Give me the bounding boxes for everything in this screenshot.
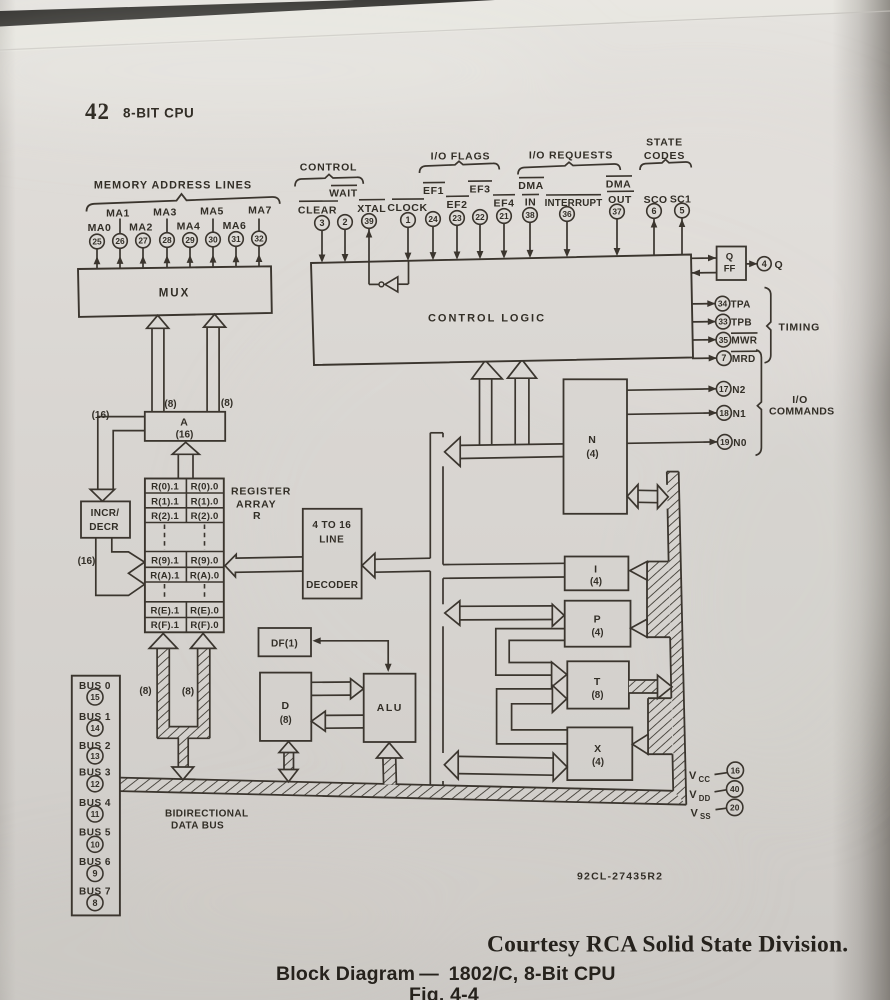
bus arrow A to MUX (8) — [147, 315, 169, 412]
svg-text:TIMING: TIMING — [779, 322, 821, 334]
label I/O REQUESTS — [529, 150, 613, 162]
bus arrow register array to A — [172, 442, 199, 478]
pin 2 WAIT — [329, 185, 358, 262]
pin 37 DMA OUT — [606, 176, 634, 256]
svg-text:33: 33 — [718, 317, 728, 327]
svg-text:A: A — [180, 417, 188, 429]
svg-text:DMA: DMA — [518, 180, 543, 192]
svg-text:(4): (4) — [592, 628, 604, 639]
svg-text:18: 18 — [719, 408, 729, 418]
svg-text:I/O: I/O — [792, 394, 808, 406]
svg-text:EF2: EF2 — [446, 199, 467, 211]
svg-text:Q: Q — [726, 252, 733, 263]
svg-text:N1: N1 — [733, 409, 747, 420]
pin 14 BUS 1 — [79, 712, 111, 736]
svg-text:R(A).1: R(A).1 — [150, 571, 180, 582]
svg-text:I/O FLAGS: I/O FLAGS — [431, 151, 491, 163]
caption fig 4-4 — [409, 984, 479, 1000]
pin 12 BUS 3 — [79, 768, 111, 792]
svg-text:14: 14 — [90, 723, 100, 733]
pin 11 BUS 4 — [79, 798, 111, 822]
svg-text:1: 1 — [405, 215, 410, 225]
svg-text:R(1).0: R(1).0 — [191, 496, 219, 507]
brace control — [295, 174, 363, 186]
black page-top edge band — [0, 0, 495, 27]
svg-text:28: 28 — [162, 235, 172, 245]
svg-text:T: T — [594, 676, 601, 688]
pin 15 BUS 0 — [79, 681, 111, 705]
svg-text:R(E).0: R(E).0 — [190, 605, 219, 616]
bus arrow N to main bus — [445, 437, 461, 466]
label (8) right — [221, 398, 233, 409]
label MA0 — [88, 222, 112, 234]
svg-text:27: 27 — [138, 236, 148, 246]
pin 33 TPB — [692, 314, 752, 329]
svg-text:DMA: DMA — [606, 179, 631, 191]
bracket timing — [765, 288, 771, 363]
svg-text:92CL-27435R2: 92CL-27435R2 — [577, 871, 663, 883]
page header title 8-BIT CPU — [123, 106, 194, 121]
svg-text:23: 23 — [452, 213, 462, 223]
brace memory address lines — [87, 194, 280, 212]
svg-text:35: 35 — [719, 335, 729, 345]
svg-text:29: 29 — [185, 235, 195, 245]
wire MUX to pin 30 — [210, 247, 217, 267]
svg-text:IN: IN — [525, 197, 537, 209]
page header number 42 — [85, 99, 110, 124]
svg-text:DATA BUS: DATA BUS — [171, 821, 224, 832]
label I/O COMMANDS — [769, 394, 834, 418]
svg-text:REGISTER: REGISTER — [231, 486, 291, 498]
bus arrow T to hatched bus — [629, 675, 672, 698]
pin 40 VDD — [689, 781, 743, 803]
svg-text:(16): (16) — [176, 430, 194, 441]
svg-text:(4): (4) — [590, 577, 602, 588]
block 4 TO 16 LINE DECODER — [303, 509, 362, 599]
svg-text:MA2: MA2 — [129, 222, 153, 234]
wire inverter to XTAL pin — [366, 229, 379, 284]
bus arrow A to MUX (8) — [204, 314, 226, 412]
svg-text:Courtesy RCA Solid State Divis: Courtesy RCA Solid State Division. — [487, 932, 848, 958]
svg-text:FF: FF — [724, 264, 736, 275]
svg-text:(8): (8) — [182, 687, 194, 698]
svg-text:V: V — [689, 789, 697, 801]
svg-text:37: 37 — [612, 207, 622, 217]
wire MUX to pin 29 — [187, 248, 194, 268]
svg-text:BIDIRECTIONAL: BIDIRECTIONAL — [165, 809, 249, 820]
pin 35 MWR — [692, 332, 758, 347]
svg-text:DF(1): DF(1) — [271, 639, 298, 650]
svg-text:R(0).0: R(0).0 — [191, 482, 219, 493]
svg-text:(8): (8) — [221, 398, 233, 409]
svg-text:4 TO 16: 4 TO 16 — [312, 520, 351, 531]
svg-text:5: 5 — [679, 206, 684, 216]
bus arrow main bus to decoder — [362, 553, 430, 578]
bus arrow hatched bus to X — [632, 734, 648, 754]
svg-text:V: V — [691, 807, 699, 819]
svg-text:TPB: TPB — [731, 318, 752, 329]
label MA1 — [106, 208, 130, 220]
svg-text:11: 11 — [91, 809, 100, 819]
label MA2 — [129, 222, 153, 234]
svg-text:MA6: MA6 — [223, 220, 247, 232]
svg-text:21: 21 — [499, 211, 509, 221]
svg-text:(16): (16) — [78, 556, 96, 567]
pin 4 Q — [746, 257, 783, 271]
label MA4 — [177, 221, 201, 233]
svg-text:CC: CC — [699, 775, 711, 784]
wire MUX to pin 32 — [256, 246, 263, 266]
svg-text:34: 34 — [718, 299, 728, 309]
pin 19 N0 — [627, 435, 747, 450]
svg-text:LINE: LINE — [319, 535, 344, 546]
wire label stem x213 — [212, 219, 214, 234]
svg-text:COMMANDS: COMMANDS — [769, 406, 834, 418]
pin 39 XTAL — [357, 200, 386, 229]
svg-text:SS: SS — [700, 812, 711, 821]
svg-text:(16): (16) — [92, 410, 110, 421]
bracket io commands — [756, 350, 762, 455]
svg-text:(4): (4) — [592, 757, 604, 768]
pin 34 TPA — [692, 296, 751, 311]
svg-text:10: 10 — [90, 839, 100, 849]
bus arrow to CONTROL LOGIC — [508, 360, 537, 445]
label (16) upper — [92, 410, 110, 421]
caption block diagram — [276, 963, 616, 985]
pin 31 MA6 — [229, 232, 244, 247]
pin 3 CLEAR — [298, 201, 338, 263]
pin 36 INTERRUPT — [545, 195, 603, 258]
svg-text:P: P — [594, 614, 602, 626]
svg-text:8-BIT CPU: 8-BIT CPU — [123, 106, 194, 121]
bus arrow ALU to D — [311, 711, 363, 731]
svg-text:6: 6 — [651, 206, 656, 216]
pin 24 EF1 — [423, 182, 445, 260]
bus arrow hatched bus to I — [630, 562, 647, 581]
svg-text:32: 32 — [254, 234, 264, 244]
svg-text:CONTROL LOGIC: CONTROL LOGIC — [428, 313, 546, 325]
svg-text:2: 2 — [342, 217, 347, 227]
svg-text:EF4: EF4 — [493, 198, 514, 210]
wire N to bus lower — [460, 457, 563, 459]
label MA7 — [248, 205, 272, 217]
svg-text:INCR/: INCR/ — [91, 508, 120, 519]
svg-text:DD: DD — [699, 794, 711, 803]
svg-text:I/O REQUESTS: I/O REQUESTS — [529, 150, 613, 162]
pin 30 MA5 — [206, 232, 221, 247]
svg-text:MA4: MA4 — [177, 221, 201, 233]
bus arrow D to data bus — [279, 742, 298, 782]
wire MUX to pin 26 — [117, 249, 124, 269]
pin 9 BUS 6 — [79, 857, 111, 882]
label I/O FLAGS — [431, 151, 491, 163]
svg-text:17: 17 — [719, 384, 729, 394]
label MEMORY ADDRESS LINES — [94, 180, 252, 192]
svg-text:N2: N2 — [732, 385, 746, 396]
svg-text:DECODER: DECODER — [306, 580, 359, 591]
wire control to Q FF — [691, 255, 717, 262]
label (8) bus left — [139, 686, 151, 697]
svg-text:22: 22 — [475, 212, 485, 222]
wire I to main bus — [443, 563, 565, 578]
pin 27 MA2 — [136, 233, 151, 248]
svg-text:8: 8 — [92, 898, 97, 908]
pin 18 N1 — [627, 406, 746, 421]
bus wire A to INCR/DECR (16) — [90, 417, 145, 502]
svg-text:R(0).1: R(0).1 — [151, 482, 179, 493]
svg-text:MUX: MUX — [159, 288, 191, 300]
svg-text:7: 7 — [721, 353, 726, 363]
svg-text:MA5: MA5 — [200, 206, 224, 218]
svg-text:I: I — [594, 564, 598, 576]
wire ALU to DF — [313, 637, 392, 672]
svg-text:ARRAY: ARRAY — [236, 498, 276, 510]
svg-text:R(F).0: R(F).0 — [190, 620, 218, 631]
svg-text:40: 40 — [730, 784, 740, 794]
wire MUX to pin 27 — [140, 248, 147, 268]
svg-text:R(A).0: R(A).0 — [190, 571, 219, 582]
bus arrow to CONTROL LOGIC — [472, 360, 503, 444]
svg-text:31: 31 — [231, 234, 241, 244]
label CONTROL — [300, 162, 358, 174]
svg-text:ALU: ALU — [377, 702, 403, 714]
pin 6 SC0 — [644, 194, 668, 255]
svg-text:R: R — [253, 510, 261, 522]
pin 5 SC1 — [670, 194, 691, 255]
pin 28 MA3 — [160, 233, 175, 248]
pin 32 MA7 — [252, 231, 267, 246]
faint page stack edge — [0, 11, 890, 50]
svg-text:39: 39 — [364, 216, 374, 226]
wire label stem x259 — [258, 219, 260, 234]
block CONTROL LOGIC — [311, 255, 693, 366]
svg-text:DECR: DECR — [89, 522, 119, 533]
svg-text:R(9).0: R(9).0 — [191, 555, 219, 566]
wire label stem x167 — [166, 219, 168, 234]
svg-text:(8): (8) — [164, 399, 176, 410]
pin 13 BUS 2 — [79, 741, 111, 764]
pin 38 DMA IN — [518, 177, 544, 258]
svg-text:STATE: STATE — [646, 137, 683, 149]
block INCR/DECR — [81, 501, 130, 537]
bus wire X to T — [497, 685, 568, 744]
svg-text:36: 36 — [562, 209, 572, 219]
svg-text:MWR: MWR — [731, 336, 757, 347]
svg-text:R(F).1: R(F).1 — [151, 620, 180, 631]
block DF — [259, 628, 312, 656]
svg-text:16: 16 — [731, 765, 741, 775]
block P register — [565, 601, 631, 647]
svg-text:WAIT: WAIT — [329, 188, 358, 200]
caption courtesy — [487, 932, 848, 958]
svg-text:(8): (8) — [139, 686, 151, 697]
block I register — [565, 557, 629, 591]
brace io requests — [518, 162, 620, 174]
wire label stem x120 — [119, 219, 121, 234]
svg-text:26: 26 — [115, 236, 125, 246]
bus arrow data bus to ALU — [377, 743, 403, 785]
svg-text:(4): (4) — [586, 449, 598, 460]
svg-text:MA0: MA0 — [88, 222, 112, 234]
pin 1 CLOCK — [387, 199, 427, 261]
svg-text:9: 9 — [92, 869, 97, 879]
svg-text:R(2).1: R(2).1 — [151, 511, 179, 522]
svg-text:24: 24 — [428, 214, 438, 224]
svg-text:15: 15 — [90, 692, 100, 702]
block N register — [564, 379, 628, 514]
label (8) left — [164, 399, 176, 410]
pin 7 MRD — [692, 351, 758, 366]
wire MUX to pin 28 — [164, 248, 171, 268]
svg-text:EF3: EF3 — [469, 184, 490, 196]
label (8) bus right — [182, 687, 194, 698]
svg-text:INTERRUPT: INTERRUPT — [545, 198, 603, 209]
label part number 92CL-27435R2 — [577, 871, 663, 883]
svg-text:XTAL: XTAL — [357, 203, 386, 215]
block register array R — [145, 479, 224, 633]
svg-text:38: 38 — [525, 210, 535, 220]
svg-text:CONTROL: CONTROL — [300, 162, 358, 174]
svg-text:Fig. 4-4: Fig. 4-4 — [409, 984, 479, 1000]
pin 22 EF3 — [468, 181, 492, 259]
label STATE CODES — [644, 137, 685, 163]
brace io flags — [420, 161, 500, 173]
wire MUX to pin 25 — [94, 249, 101, 269]
svg-text:Q: Q — [775, 259, 784, 271]
block D register — [260, 673, 311, 741]
pin 8 BUS 7 — [79, 887, 111, 911]
pin 21 EF4 — [493, 195, 515, 259]
bus arrow N to hatched bus — [627, 485, 668, 509]
svg-text:12: 12 — [90, 779, 100, 789]
svg-text:R(E).1: R(E).1 — [151, 605, 180, 616]
pin 29 MA4 — [183, 233, 198, 248]
block A register — [145, 412, 225, 441]
svg-text:(8): (8) — [280, 715, 292, 726]
label REGISTER ARRAY R — [231, 486, 291, 523]
label BIDIRECTIONAL DATA BUS — [165, 809, 249, 832]
label TIMING — [779, 322, 821, 334]
svg-text:30: 30 — [208, 235, 218, 245]
svg-text:N0: N0 — [733, 438, 747, 449]
wire MUX to pin 31 — [233, 247, 240, 267]
brace state codes — [640, 160, 691, 171]
svg-text:Block Diagram — 1802/C, 8-Bit: Block Diagram — 1802/C, 8-Bit CPU — [276, 963, 616, 985]
bus main vertical bus — [430, 433, 443, 786]
wire clock tap — [398, 261, 409, 284]
svg-text:13: 13 — [90, 751, 100, 761]
wire N to bus upper — [460, 444, 563, 446]
bus arrow hatched bus to P — [631, 619, 647, 637]
label MA6 — [223, 220, 247, 232]
svg-text:R(9).1: R(9).1 — [151, 555, 179, 566]
bus wire P to T — [496, 629, 567, 687]
bus arrows register array to data bus — [149, 634, 216, 780]
block BUS pin column — [72, 676, 120, 916]
svg-text:V: V — [689, 770, 697, 782]
inverter clock to xtal — [379, 277, 398, 292]
bus arrow main bus to X — [444, 751, 567, 781]
svg-text:4: 4 — [762, 259, 767, 269]
svg-text:MA1: MA1 — [106, 208, 130, 220]
svg-text:MA3: MA3 — [153, 207, 177, 219]
svg-text:42: 42 — [85, 99, 110, 124]
svg-text:19: 19 — [720, 437, 730, 447]
svg-text:20: 20 — [730, 803, 740, 813]
svg-text:MA7: MA7 — [248, 205, 272, 217]
pin 26 MA1 — [113, 234, 128, 249]
bus arrow D to ALU — [311, 679, 363, 699]
block Q FF — [717, 247, 746, 281]
svg-text:D: D — [282, 700, 290, 712]
svg-text:X: X — [594, 743, 602, 755]
svg-text:25: 25 — [92, 237, 102, 247]
svg-text:TPA: TPA — [731, 300, 751, 311]
block X register — [567, 727, 632, 780]
block MUX — [78, 266, 272, 317]
svg-text:N: N — [588, 434, 596, 446]
svg-text:CLEAR: CLEAR — [298, 205, 337, 217]
svg-text:EF1: EF1 — [423, 185, 444, 197]
svg-text:R(1).1: R(1).1 — [151, 496, 179, 507]
bus arrow decoder to register array — [225, 554, 303, 577]
label (16) lower — [78, 556, 96, 567]
label MA5 — [200, 206, 224, 218]
label MA3 — [153, 207, 177, 219]
block ALU — [364, 674, 416, 742]
svg-text:(8): (8) — [592, 690, 604, 701]
pin 17 N2 — [627, 382, 746, 397]
bus arrow main bus to P — [445, 601, 564, 627]
wire Q FF to control — [691, 270, 716, 277]
pin 23 EF2 — [446, 196, 469, 260]
pin 10 BUS 5 — [79, 828, 111, 853]
block T register — [567, 661, 629, 708]
pin 25 MA0 — [90, 234, 105, 249]
bus data bus outline — [120, 778, 686, 805]
svg-text:MRD: MRD — [732, 354, 756, 365]
pin 20 VSS — [691, 799, 743, 821]
svg-text:MEMORY ADDRESS LINES: MEMORY ADDRESS LINES — [94, 180, 252, 192]
bus wire INCR/DECR to register array (16) — [96, 538, 145, 596]
svg-text:R(2).0: R(2).0 — [191, 511, 219, 522]
bus hatched bus and data bus — [120, 472, 686, 805]
svg-text:3: 3 — [319, 218, 324, 228]
pin 16 VCC — [689, 762, 744, 784]
